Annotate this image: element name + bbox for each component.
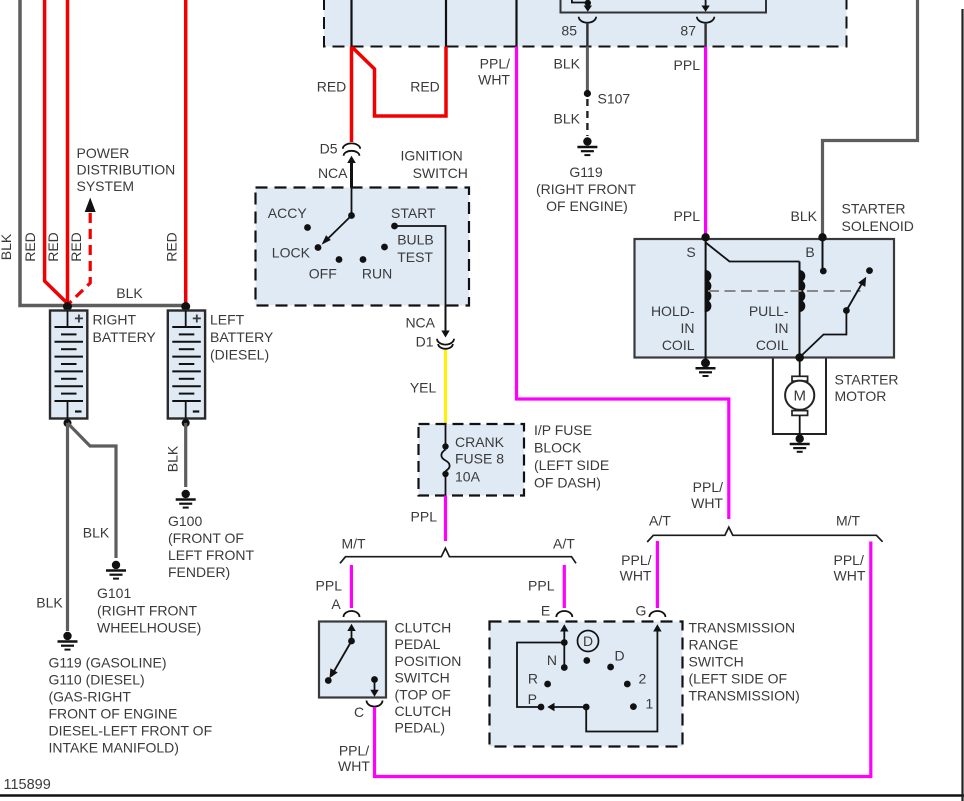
D1 label [416,334,434,350]
transmission range switch box [490,622,683,747]
pin 85 connector cavity [579,17,596,23]
PPL/WHT label main run [691,479,723,511]
wire PPL/WHT clutch C to M/T brace [375,542,871,777]
svg-text:OFF: OFF [309,266,337,282]
I/P fuse block label [534,422,609,491]
svg-text:LOCK: LOCK [272,245,311,261]
G100 label [168,513,255,580]
wire BLK pin85 to S107 [586,47,589,91]
contact P [538,704,545,711]
wire pin85 stub inside box [586,23,589,47]
svg-text:SWITCH: SWITCH [689,654,744,670]
svg-text:I/P FUSE: I/P FUSE [534,422,592,438]
clutch switch arrow to A [347,624,355,641]
svg-text:FENDER): FENDER) [168,564,230,580]
RED label rotated 2 [45,232,61,262]
svg-text:A/T: A/T [649,513,671,529]
contact OFF [336,256,343,263]
wire RED 3 to left battery [184,0,188,306]
svg-text:87: 87 [680,23,696,39]
svg-text:M/T: M/T [836,513,861,529]
clutch pedal position switch label [395,620,462,736]
node right battery positive [63,302,72,311]
range switch E arrow [560,624,568,642]
svg-text:YEL: YEL [410,380,437,396]
M/T label left brace [342,536,367,552]
svg-text:CLUTCH: CLUTCH [395,703,452,719]
svg-text:WHT: WHT [834,568,866,584]
svg-text:LEFT FRONT: LEFT FRONT [168,547,255,563]
svg-text:NCA: NCA [318,165,348,181]
RED label left [317,79,347,95]
svg-text:RUN: RUN [362,266,392,282]
left battery label [210,312,274,363]
wire BLK right battery to G101 ground [68,423,117,558]
fuse value labels [455,434,505,485]
node solenoid output junction [795,353,804,362]
circled D indicator [578,631,599,652]
svg-text:(RIGHT FRONT: (RIGHT FRONT [536,181,637,197]
PPL label above S [674,208,701,224]
svg-text:M/T: M/T [342,536,367,552]
svg-text:DISTRIBUTION: DISTRIBUTION [77,162,176,178]
svg-text:115899: 115899 [4,777,51,793]
svg-text:D: D [615,648,625,664]
svg-text:PPL/: PPL/ [834,552,864,568]
svg-text:10A: 10A [455,469,481,485]
NCA label above switch [318,165,348,181]
power distribution system label [77,145,176,194]
ground G100 [176,490,196,508]
svg-text:PPL/: PPL/ [621,552,651,568]
svg-text:(GAS-RIGHT: (GAS-RIGHT [49,689,132,705]
svg-text:RED: RED [410,79,440,95]
wire S to pull-in coil [706,243,800,262]
power distribution arrow [85,198,96,213]
pin A label [331,596,341,612]
svg-text:PPL: PPL [411,509,438,525]
A/T label right brace [649,513,671,529]
RED label rotated 1 [22,232,38,262]
solenoid moving contact blade [801,277,867,357]
contact 2 [624,681,631,688]
hold-in coil [706,239,711,358]
ground G119/G110 (bottom left) [58,632,78,650]
svg-text:RANGE: RANGE [689,637,739,653]
relay coil wire and junction [572,0,591,6]
pin C connector cavity [367,701,383,707]
wire START output [395,226,446,306]
PPL/WHT label top [478,56,510,88]
svg-text:PPL: PPL [674,208,701,224]
pin A connector cavity [344,611,360,617]
svg-text:S: S [686,244,695,260]
ground G101 [106,561,126,579]
svg-text:PPL/: PPL/ [480,56,510,72]
battery G1 right battery [50,311,87,419]
starter solenoid label [842,201,914,235]
right border [961,9,963,801]
M/T label right brace [836,513,861,529]
svg-text:BLK: BLK [116,285,143,301]
svg-text:INTAKE MANIFOLD): INTAKE MANIFOLD) [49,740,179,756]
svg-text:BLK: BLK [36,595,63,611]
svg-text:PEDAL): PEDAL) [395,720,446,736]
svg-text:BLK: BLK [83,525,110,541]
svg-text:N: N [547,652,557,668]
svg-text:S107: S107 [598,91,631,107]
battery G2 left battery (diesel) [168,311,205,419]
svg-text:PULL-: PULL- [749,303,789,319]
I/P fuse block box [419,424,525,496]
svg-text:WHT: WHT [338,758,370,774]
transmission range switch label [689,620,800,704]
solenoid fixed contact [866,267,873,274]
svg-text:C: C [354,704,364,720]
svg-text:OF ENGINE): OF ENGINE) [546,198,628,214]
svg-text:IN: IN [681,320,695,336]
svg-text:A: A [331,596,341,612]
wire YEL [444,350,447,424]
1 label [646,696,654,712]
svg-text:2: 2 [639,671,647,687]
node left battery negative [182,419,190,427]
contact BULB TEST [381,244,388,251]
svg-text:POSITION: POSITION [395,653,462,669]
underhood fuse/relay block (dashed box, top) [324,0,847,47]
OFF label [309,266,337,282]
svg-text:RED: RED [317,79,347,95]
diagram number [4,777,51,793]
svg-text:START: START [391,205,436,221]
svg-text:PPL: PPL [528,578,555,594]
svg-text:POWER: POWER [77,145,130,161]
S107 label [598,91,631,107]
svg-text:BATTERY: BATTERY [210,329,274,345]
svg-text:IGNITION: IGNITION [401,148,463,164]
svg-text:BLOCK: BLOCK [534,440,582,456]
range switch moving contact arrow [547,703,586,711]
svg-text:BATTERY: BATTERY [93,329,157,345]
svg-text:COIL: COIL [756,337,789,353]
contact RUN [360,256,367,263]
ignition switch label [401,148,468,182]
BLK label G119 wire [36,595,63,611]
svg-text:STARTER: STARTER [835,372,899,388]
wire RED 1 [45,0,68,304]
ground starter motor [790,435,810,452]
relay pin 87 arrow [701,0,709,12]
wire battery feed (inside box) [445,0,447,47]
svg-text:ACCY: ACCY [268,205,308,221]
svg-text:BLK: BLK [554,56,581,72]
svg-text:LEFT: LEFT [210,312,245,328]
connector D1 [437,339,454,349]
wire NCA black to ignition switch [347,156,356,189]
BLK label above B [791,208,818,224]
svg-text:HOLD-: HOLD- [651,303,695,319]
svg-text:PEDAL: PEDAL [395,636,441,652]
wire RED jog from fuse block [353,47,447,117]
contact below circled D [583,657,590,664]
START label [391,205,436,221]
relay pin 85 arrow [584,3,592,12]
svg-text:PPL/: PPL/ [339,743,369,759]
svg-text:WHT: WHT [478,72,510,88]
svg-text:BLK: BLK [791,208,818,224]
LOCK label [272,245,311,261]
ACCY label [268,205,308,221]
pin E connector cavity [556,611,572,617]
brace A/T M/T (right) [647,527,882,542]
svg-text:COIL: COIL [662,337,695,353]
starter motor label [835,372,899,405]
D label [615,648,625,664]
svg-text:BLK: BLK [554,111,581,127]
wire PPL/WHT main run [517,47,729,520]
ignition switch box [256,188,470,306]
P label [528,691,537,707]
ground hold-in coil [696,358,716,377]
ignition switch wiper [322,188,355,245]
svg-text:PPL: PPL [674,57,701,73]
wire BLK to solenoid B [823,0,918,236]
svg-text:E: E [541,603,550,619]
starter motor M1 [785,358,814,435]
A/T label left brace [553,536,575,552]
wire BLK right battery to G119 ground [66,423,69,631]
HOLD-IN COIL label [651,303,695,353]
pin 85 label [561,23,577,39]
BLK label rotated [0,233,14,260]
svg-text:(LEFT SIDE: (LEFT SIDE [534,457,609,473]
svg-text:D: D [583,633,593,649]
svg-text:1: 1 [646,696,654,712]
node terminal B [818,233,826,241]
wire RED to D5 [350,47,354,143]
svg-text:BLK: BLK [165,445,181,472]
range switch wire to G [586,624,661,731]
2 label [639,671,647,687]
node left battery positive [181,302,190,311]
ground G119 (right front off engine) [577,137,597,155]
pin G label [636,603,647,619]
PPL label clutch [316,578,343,594]
wire BLK left battery to G100 ground [184,423,187,487]
pin 87 label [680,23,696,39]
svg-text:R: R [528,671,538,687]
right battery label [93,312,157,346]
svg-text:G110 (DIESEL): G110 (DIESEL) [49,672,145,688]
svg-text:M: M [793,388,806,405]
PPL label below fuse [411,509,438,525]
svg-text:(TOP OF: (TOP OF [395,686,451,702]
BLK label dashed wire [554,111,581,127]
fuse CRANK FUSE 8 10A [441,424,449,496]
RED label right [410,79,440,95]
svg-text:PPL: PPL [316,578,343,594]
svg-text:DIESEL-LEFT FRONT OF: DIESEL-LEFT FRONT OF [49,723,213,739]
PPL/WHT label G drop [620,552,652,584]
svg-text:SYSTEM: SYSTEM [77,178,135,194]
svg-text:(DIESEL): (DIESEL) [210,347,269,363]
G101 label [97,585,201,636]
wire PPL to range switch E [563,565,566,608]
svg-text:IN: IN [775,320,789,336]
wire PPL/WHT G pigtail [656,541,659,608]
clutch switch contact C side [370,676,378,697]
svg-text:G: G [636,603,647,619]
svg-text:SOLENOID: SOLENOID [842,218,914,234]
YEL label [410,380,437,396]
G119 right front label [536,164,637,214]
svg-text:RED: RED [164,232,180,262]
svg-text:WHT: WHT [620,568,652,584]
wire RED dashed to power distribution [69,213,91,304]
svg-text:A/T: A/T [553,536,575,552]
svg-text:TRANSMISSION: TRANSMISSION [689,620,796,636]
svg-text:(FRONT OF: (FRONT OF [168,530,244,546]
RED label rotated 4 [164,232,180,262]
svg-text:WHEELHOUSE): WHEELHOUSE) [97,620,201,636]
svg-text:G119 (GASOLINE): G119 (GASOLINE) [49,655,167,671]
pin C label [354,704,364,720]
svg-text:P: P [528,691,537,707]
wire PPL from fuse [444,496,447,542]
S label [686,244,695,260]
svg-text:PPL/: PPL/ [693,479,723,495]
brace M/T A/T (left) [340,548,576,563]
svg-text:G101: G101 [97,585,131,601]
BULB TEST label [397,232,434,266]
D5 label [320,141,338,157]
svg-text:SWITCH: SWITCH [395,670,450,686]
svg-text:BLK: BLK [0,233,14,260]
node moving contact junction [583,704,590,711]
RUN label [362,266,392,282]
NCA label below switch [405,315,435,331]
contact 1 [630,703,637,710]
contact ACCY [304,224,311,231]
svg-text:NCA: NCA [405,315,435,331]
B label [805,244,814,260]
svg-text:B: B [805,244,814,260]
svg-text:RED: RED [45,232,61,262]
clutch pedal position switch box [319,622,386,698]
svg-text:FRONT OF ENGINE: FRONT OF ENGINE [49,706,178,722]
R label [528,671,538,687]
bottom border [0,794,964,797]
starter relay inner box [561,0,767,13]
wire RED 2 [66,0,70,306]
BLK label G101 wire [83,525,110,541]
RED label rotated 3 [68,232,84,262]
starter solenoid box [635,239,895,358]
svg-text:STARTER: STARTER [842,201,906,217]
contact R [544,681,551,688]
pin 87 connector cavity [697,17,714,23]
svg-text:SWITCH: SWITCH [413,165,468,181]
svg-text:85: 85 [561,23,577,39]
wire BLK dashed S107 to ground [586,99,588,136]
wire pin87 stub inside box [704,23,707,47]
PULL-IN COIL label [749,303,789,353]
svg-text:BULB: BULB [397,232,434,248]
svg-text:RIGHT: RIGHT [93,312,137,328]
svg-text:OF DASH): OF DASH) [534,475,601,491]
svg-text:+: + [74,311,83,328]
linkage dashed line [708,290,861,292]
solenoid B contact [820,239,827,274]
PPL/WHT label M/T drop [834,552,866,584]
svg-text:D5: D5 [320,141,338,157]
svg-text:WHT: WHT [691,495,723,511]
svg-text:G100: G100 [168,513,202,529]
svg-text:(RIGHT FRONT: (RIGHT FRONT [97,602,198,618]
PPL label E [528,578,555,594]
contact START [391,223,398,230]
svg-text:RED: RED [22,232,38,262]
svg-text:G119: G119 [569,164,602,180]
wire BLK left battery feed [20,0,186,306]
splice S107 [584,90,591,97]
svg-text:D1: D1 [416,334,434,350]
contact LOCK [315,244,322,251]
N label [547,652,557,668]
wire PPL to clutch switch A [350,565,353,608]
BLK bus label [116,285,143,301]
svg-text:TRANSMISSION): TRANSMISSION) [689,688,800,704]
wire to ignition feed (inside box) [350,0,352,47]
svg-text:FUSE 8: FUSE 8 [455,451,504,467]
wire NCA to D1 [441,306,449,338]
node right battery negative [64,419,72,427]
wire PPL pin87 to solenoid S [704,47,707,237]
node terminal S [701,233,709,241]
starter motor enclosure [773,359,826,435]
PPL/WHT label at C [338,743,370,775]
pull-in coil [800,262,805,358]
wire PPL/WHT feed (inside box) [515,0,517,47]
svg-text:(LEFT SIDE OF: (LEFT SIDE OF [689,671,788,687]
pin G connector cavity [649,611,665,617]
BLK label pin85 [554,56,581,72]
range switch E branch [517,639,568,707]
G119/G110 label [49,655,213,756]
svg-text:RED: RED [68,232,84,262]
contact D [607,664,614,671]
pin E label [541,603,550,619]
svg-text:+: + [192,311,201,328]
BLK label G100 wire rotated [165,445,181,472]
svg-text:CRANK: CRANK [455,434,505,450]
PPL label top [674,57,701,73]
svg-text:TEST: TEST [397,249,433,265]
clutch switch blade [325,638,355,684]
svg-text:MOTOR: MOTOR [835,388,887,404]
connector D5 [343,143,360,155]
svg-text:CLUTCH: CLUTCH [395,620,452,636]
